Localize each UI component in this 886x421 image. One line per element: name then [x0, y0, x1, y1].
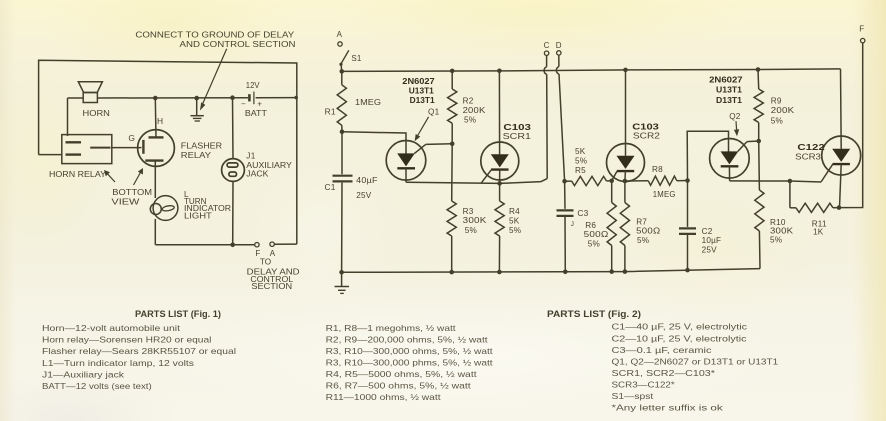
node: rail-S1 junction	[340, 69, 345, 74]
svg-text:AND CONTROL SECTION: AND CONTROL SECTION	[180, 39, 296, 49]
label Q1	[428, 108, 440, 117]
wire: rail corner to SCR3 anode	[840, 69, 843, 149]
wire: C2 node to Q2 anode	[687, 131, 729, 180]
svg-text:SCR2: SCR2	[633, 132, 661, 141]
svg-text:RELAY: RELAY	[181, 150, 211, 160]
resistor R4	[495, 183, 504, 272]
svg-text:5%: 5%	[770, 236, 782, 245]
svg-text:Horn—12-volt automobile unit: Horn—12-volt automobile unit	[42, 323, 181, 333]
node: bottom rail J1 junction	[230, 243, 235, 248]
svg-text:SCR1, SCR2—C103*: SCR1, SCR2—C103*	[612, 368, 716, 378]
label 2N6027 U13T1 D13T1 (Q1)	[402, 76, 435, 105]
terminal A (fig2)	[338, 42, 342, 46]
svg-text:10µF: 10µF	[702, 236, 722, 245]
node: C3-R5 junction (D node)	[562, 179, 567, 184]
svg-text:D: D	[556, 41, 562, 50]
wire: A terminal to right edge	[274, 243, 297, 245]
svg-text:S1—spst: S1—spst	[612, 391, 655, 401]
wire: C1 node to Q1 anode	[342, 132, 406, 154]
svg-text:U13T1: U13T1	[716, 85, 742, 95]
label A (fig2)	[337, 30, 343, 39]
resistor R3	[447, 144, 456, 272]
svg-text:200K: 200K	[771, 106, 795, 115]
label F (fig2)	[859, 25, 864, 34]
wire: rail to J1	[232, 98, 235, 159]
label TO DELAY AND CONTROL SECTION	[247, 257, 300, 291]
svg-text:5%: 5%	[464, 116, 476, 125]
label C122 SCR3	[795, 142, 825, 162]
node: bottom rail R4	[497, 270, 502, 275]
wire: Q1 gate to R2/R3 junction	[426, 143, 453, 146]
label HORN	[83, 108, 110, 118]
node: bottom rail C2	[685, 268, 690, 273]
leader arrow to ground	[200, 49, 227, 111]
wire: W2 segment C3 node to R5	[565, 180, 572, 182]
node: rail-right corner junction	[294, 96, 298, 100]
svg-text:Q1, Q2—2N6027 or D13T1 or U13T: Q1, Q2—2N6027 or D13T1 or U13T1	[612, 356, 779, 366]
node: rail-ground junction	[194, 96, 199, 101]
label J (C3)	[571, 221, 575, 228]
svg-text:−: −	[241, 99, 246, 108]
capacitor C1	[333, 132, 353, 272]
node: W3-R11 junction	[788, 179, 793, 184]
parts list resistors column	[326, 323, 494, 402]
label R9 200K 5%	[771, 97, 795, 126]
svg-text:TO: TO	[260, 257, 271, 266]
svg-text:BATT—12 volts (see text): BATT—12 volts (see text)	[42, 381, 152, 391]
svg-text:J1—Auxiliary jack: J1—Auxiliary jack	[42, 369, 125, 379]
svg-text:5K: 5K	[575, 147, 586, 156]
svg-text:1MEG: 1MEG	[653, 190, 676, 199]
svg-text:F: F	[859, 25, 864, 34]
svg-text:J: J	[571, 221, 575, 228]
wire: lamp down to bottom rail	[154, 219, 156, 245]
capacitor C3	[557, 181, 574, 272]
node: SCR1 cathode junction	[497, 181, 502, 186]
capacitor C2	[679, 181, 696, 271]
label Q2	[729, 112, 741, 121]
auxiliary jack J1	[222, 159, 245, 182]
svg-text:R2, R9—200,000 ohms, 5%, ½ wat: R2, R9—200,000 ohms, 5%, ½ watt	[326, 334, 489, 344]
svg-text:*Any letter suffix is ok: *Any letter suffix is ok	[612, 403, 724, 413]
wire: fig2 bottom rail	[342, 269, 760, 273]
node: rail-SCR2 junction	[623, 68, 628, 73]
svg-text:Flasher relay—Sears 28KR55107: Flasher relay—Sears 28KR55107 or equal	[42, 346, 236, 356]
terminal F	[255, 243, 259, 247]
svg-text:H: H	[157, 116, 163, 126]
horn (speaker symbol)	[78, 82, 102, 103]
svg-text:BOTTOM: BOTTOM	[112, 187, 152, 197]
wire: Q1 cathode to SCR1 node (W1)	[406, 179, 547, 184]
svg-text:Q2: Q2	[729, 112, 741, 121]
arrow Q2 label to symbol	[734, 121, 739, 136]
label BATT	[245, 108, 267, 118]
node: SCR2 cathode-R7 junction	[623, 179, 628, 184]
arrow to flasher relay	[134, 168, 144, 185]
resistor R11	[790, 181, 839, 212]
svg-text:R3, R10—300,000 phms, 5%, ½ wa: R3, R10—300,000 phms, 5%, ½ watt	[326, 357, 494, 367]
node: SCR3 cathode junction	[837, 205, 842, 210]
svg-text:R3, R10—300,000 ohms, 5%, ½ wa: R3, R10—300,000 ohms, 5%, ½ watt	[326, 346, 494, 356]
node: rail-R9 junction	[756, 67, 761, 72]
svg-text:R3: R3	[463, 207, 474, 216]
svg-text:C122: C122	[797, 142, 825, 152]
parts list Fig.1	[42, 309, 236, 391]
label R6 500ohm 5%	[584, 221, 609, 248]
svg-text:25V: 25V	[356, 191, 372, 200]
SCR3 (C122)	[821, 136, 861, 208]
SCR2 (C103)	[607, 144, 645, 182]
node: bottom rail R6	[609, 269, 614, 274]
svg-text:C3: C3	[577, 208, 588, 218]
svg-text:R7: R7	[636, 217, 647, 226]
node: R2-R3-gate junction	[450, 142, 455, 147]
svg-text:S1: S1	[351, 54, 362, 63]
svg-text:L1—Turn indicator lamp, 12 vol: L1—Turn indicator lamp, 12 volts	[42, 358, 194, 368]
label R1	[325, 107, 336, 117]
svg-text:C1—40 µF, 25 V, electrolytic: C1—40 µF, 25 V, electrolytic	[612, 322, 748, 332]
terminal D	[557, 51, 561, 55]
svg-text:FLASHER: FLASHER	[181, 140, 222, 150]
label R4 5K 5%	[509, 207, 521, 235]
svg-text:C103: C103	[632, 122, 659, 132]
svg-text:C: C	[544, 41, 550, 50]
label C2 10uF 25V	[702, 227, 722, 255]
node: C2-Q2 junction	[685, 178, 690, 183]
terminal F (fig2)	[861, 38, 865, 42]
label R3 300K 5%	[463, 207, 487, 235]
arrow Q1 label to symbol	[415, 117, 429, 141]
node: bottom rail R3	[449, 270, 454, 275]
label 40uF 25V (C1)	[356, 176, 378, 200]
label R10 300K 5%	[770, 218, 794, 245]
svg-text:VIEW: VIEW	[111, 197, 140, 207]
label 1MEG (R8)	[653, 190, 676, 199]
horn relay HORN RELAY (box with contacts)	[62, 135, 112, 164]
annotation: connect-to-ground text line 1	[135, 30, 294, 40]
svg-text:R4: R4	[509, 207, 520, 216]
svg-text:R11—1000 ohms, ½ watt: R11—1000 ohms, ½ watt	[326, 392, 442, 402]
wire: relay armature to flasher G pin	[112, 147, 142, 149]
svg-text:BATT: BATT	[245, 108, 267, 118]
wire: W2 SCR2 to R8	[625, 180, 648, 182]
wire: fig1 outer box (top/right/left edges)	[39, 60, 297, 244]
battery BATT 12V	[241, 92, 262, 109]
wire: Q2 gate to R9/R10 junction	[747, 140, 759, 143]
svg-text:C1: C1	[325, 182, 336, 192]
label 12V	[246, 80, 260, 90]
svg-text:5%: 5%	[588, 239, 600, 248]
parts list Fig.2	[547, 309, 779, 413]
SCR1 (C103)	[481, 142, 519, 183]
wire: fig1 bottom rail	[155, 244, 254, 246]
resistor R8	[648, 176, 687, 185]
svg-text:5%: 5%	[637, 236, 649, 245]
svg-text:R4, R5—5000 ohms, 5%, ½ watt: R4, R5—5000 ohms, 5%, ½ watt	[326, 369, 478, 379]
flasher relay socket (bottom view circle)	[138, 130, 175, 167]
label 5K 5% R5	[575, 147, 587, 175]
svg-text:300K: 300K	[463, 216, 487, 225]
node: rail-H junction	[153, 96, 158, 101]
svg-text:12V: 12V	[246, 80, 260, 90]
svg-text:PARTS LIST (Fig. 1): PARTS LIST (Fig. 1)	[135, 309, 221, 319]
label R8	[652, 165, 663, 174]
svg-text:A: A	[337, 30, 343, 39]
label R2 200K 5%	[463, 97, 486, 125]
svg-text:HORN RELAY: HORN RELAY	[49, 169, 106, 179]
switch S1	[339, 50, 348, 71]
svg-text:R9: R9	[771, 97, 782, 106]
svg-text:1MEG: 1MEG	[355, 98, 381, 107]
node: SCR2 gate-R6 junction	[609, 179, 614, 184]
label C103 SCR1	[503, 122, 532, 141]
wire: H pin to rail	[154, 98, 157, 137]
terminal A (fig1)	[270, 242, 274, 246]
label C1	[325, 182, 336, 192]
node: bottom rail C3	[563, 270, 568, 275]
wire: D terminal drop with rail hop	[556, 55, 564, 181]
svg-text:LIGHT: LIGHT	[184, 212, 212, 221]
node: bottom rail left end	[339, 270, 344, 275]
label F	[255, 249, 260, 258]
svg-text:C3—0.1 µF, ceramic: C3—0.1 µF, ceramic	[612, 345, 712, 355]
svg-text:D13T1: D13T1	[410, 95, 435, 105]
svg-text:5%: 5%	[465, 226, 477, 235]
label BOTTOM VIEW	[111, 187, 152, 207]
resistor R2	[448, 71, 457, 144]
node: rail-SCR1 junction	[497, 69, 502, 74]
svg-text:SCR3: SCR3	[795, 153, 821, 162]
svg-text:R1, R8—1 megohms, ½ watt: R1, R8—1 megohms, ½ watt	[326, 323, 457, 333]
label 1MEG (R1)	[355, 98, 381, 107]
svg-text:5%: 5%	[575, 157, 587, 166]
label R11 1K	[812, 219, 827, 236]
ground (fig2)	[335, 272, 350, 293]
node: rail-R2 junction	[450, 69, 455, 74]
arrow to horn relay	[104, 170, 115, 182]
transistor Q1 (PUT 2N6027)	[386, 141, 426, 183]
svg-text:5%: 5%	[509, 226, 521, 235]
node: bottom rail R7	[623, 269, 628, 274]
svg-text:40µF: 40µF	[356, 176, 378, 185]
svg-text:R1: R1	[325, 107, 336, 117]
label 2N6027 U13T1 D13T1 (Q2)	[709, 74, 743, 105]
wire: J1 to bottom rail	[232, 181, 234, 244]
svg-text:500Ω: 500Ω	[636, 226, 660, 235]
svg-text:PARTS LIST (Fig. 2): PARTS LIST (Fig. 2)	[547, 309, 641, 319]
label R7 500ohm 5%	[636, 217, 660, 245]
label HORN RELAY	[49, 169, 106, 179]
svg-text:300K: 300K	[770, 227, 794, 236]
wire: flasher bottom pin down to lamp	[154, 161, 156, 198]
label L TURN INDICATOR LIGHT	[184, 190, 231, 221]
wire: fig1 main rail	[68, 98, 297, 136]
wire: fig2 top rail	[342, 69, 841, 72]
svg-text:2N6027: 2N6027	[709, 74, 743, 84]
node: R9-R10-gate junction	[756, 139, 761, 144]
svg-text:SECTION: SECTION	[251, 282, 292, 291]
svg-text:C2—10 µF, 25 V, electrolytic: C2—10 µF, 25 V, electrolytic	[612, 333, 747, 343]
resistor R6	[607, 181, 616, 272]
svg-text:5K: 5K	[509, 216, 520, 225]
annotation: connect-to-ground text line 2	[180, 39, 296, 49]
svg-text:R6: R6	[585, 221, 596, 230]
label C3	[577, 208, 588, 218]
svg-text:R6, R7—500 ohms, 5%, ½ watt: R6, R7—500 ohms, 5%, ½ watt	[326, 380, 472, 390]
wire: C terminal drop with rail hop	[544, 55, 547, 178]
label G	[128, 133, 135, 143]
node: rail-J1 junction	[230, 95, 235, 100]
label S1	[351, 54, 362, 63]
turn indicator light L (lamp symbol)	[150, 196, 178, 221]
label C	[544, 41, 550, 50]
transistor Q2 (PUT 2N6027)	[710, 139, 750, 181]
svg-text:Horn relay—Sorensen HR20 or eq: Horn relay—Sorensen HR20 or equal	[42, 335, 212, 345]
resistor R7	[620, 181, 629, 272]
svg-text:SCR3—C122*: SCR3—C122*	[612, 379, 676, 389]
ground (fig1)	[191, 98, 204, 121]
svg-text:5%: 5%	[771, 117, 783, 126]
svg-text:200K: 200K	[463, 106, 486, 115]
svg-text:Q1: Q1	[428, 108, 440, 117]
wire: Q2 cathode to SCR3 gate (W3)	[730, 181, 821, 182]
svg-text:U13T1: U13T1	[409, 85, 434, 95]
svg-text:D13T1: D13T1	[716, 95, 742, 105]
svg-text:25V: 25V	[702, 246, 718, 255]
terminal C	[544, 51, 548, 55]
label D	[556, 41, 562, 50]
wire: rail to SCR2 anode	[625, 70, 627, 156]
resistor R5 (5K pot section)	[572, 176, 612, 185]
label FLASHER RELAY	[181, 140, 222, 160]
svg-text:JACK: JACK	[246, 170, 269, 179]
wire: SCR3 cathode node to F terminal	[839, 43, 863, 208]
resistor R10	[755, 141, 764, 269]
resistor R9	[754, 70, 763, 142]
svg-text:SCR1: SCR1	[503, 132, 532, 141]
svg-text:R8: R8	[652, 165, 663, 174]
label J1 AUXILIARY JACK	[246, 151, 292, 178]
svg-text:R2: R2	[463, 97, 474, 106]
label A	[270, 249, 276, 258]
label C103 SCR2	[632, 122, 660, 141]
label H	[157, 116, 163, 126]
wire: rail to SCR1 anode	[498, 71, 500, 155]
svg-text:500Ω: 500Ω	[584, 230, 609, 239]
svg-text:HORN: HORN	[83, 108, 110, 118]
svg-text:R5: R5	[575, 166, 586, 175]
svg-text:C103: C103	[503, 122, 531, 132]
svg-text:G: G	[128, 133, 135, 143]
svg-text:C2: C2	[702, 227, 713, 236]
svg-text:1K: 1K	[813, 228, 824, 237]
node: R1-C1-Q1 junction	[340, 130, 345, 135]
resistor R1	[337, 71, 346, 131]
svg-text:J1: J1	[246, 151, 255, 160]
